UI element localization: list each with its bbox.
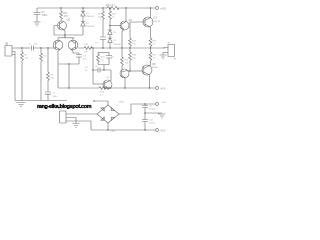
resistor R8	[60, 8, 69, 21]
wire center tap	[69, 118, 76, 124]
terminal +42V psu	[156, 102, 167, 105]
resistor R1	[21, 48, 29, 101]
wire Q1 collector	[58, 50, 60, 89]
wire input	[15, 47, 31, 49]
wire Q7 base	[130, 22, 145, 38]
wire to Q6 base	[110, 25, 121, 27]
transistor Q2 driver	[120, 69, 143, 88]
svg-text:Q6: Q6	[129, 18, 133, 22]
transistor Q6	[120, 8, 133, 48]
transistor Q5	[58, 18, 71, 31]
svg-text:+42V: +42V	[161, 102, 167, 104]
svg-text:Q5: Q5	[67, 18, 71, 22]
ground (input)	[15, 101, 26, 107]
resistor R12	[99, 87, 109, 97]
resistor R15	[129, 38, 137, 52]
bottom rail -V	[58, 87, 155, 89]
svg-text:-42V: -42V	[160, 87, 166, 91]
wire VAS column	[92, 48, 94, 84]
bridge rectifier BR1	[97, 102, 125, 133]
svg-text:Q7: Q7	[154, 16, 158, 20]
svg-text:A1941: A1941	[152, 66, 159, 69]
svg-text:R14 4.7: R14 4.7	[106, 3, 116, 7]
terminal -42V mid	[156, 87, 166, 91]
wire Q5 emitter down	[64, 30, 66, 36]
resistor R18	[97, 53, 100, 65]
capacitor C3	[95, 37, 106, 48]
node feedback	[47, 47, 48, 48]
resistor R17	[149, 52, 157, 65]
output mid line	[78, 47, 165, 49]
ground (C7)	[34, 22, 41, 26]
resistor R6	[47, 48, 55, 92]
capacitor C4	[76, 53, 87, 64]
capacitor C6	[106, 53, 112, 65]
capacitor C9	[140, 104, 156, 120]
input jack J1	[5, 43, 15, 57]
top rail +V	[37, 6, 155, 9]
bottom psu line	[91, 129, 155, 131]
wire Q7 collector	[150, 8, 152, 18]
svg-text:C5198: C5198	[154, 21, 161, 23]
svg-text:1N4148: 1N4148	[86, 16, 94, 18]
transistor Q8	[142, 62, 159, 88]
node R1	[21, 47, 22, 48]
wire bridge minus	[107, 123, 109, 130]
ground (psu)	[159, 113, 166, 118]
node dots bottom rail	[68, 87, 150, 88]
capacitor C1	[29, 44, 55, 51]
wire Q7 emitter	[150, 28, 152, 39]
svg-text:+42V: +42V	[160, 7, 166, 11]
node dots mid line	[92, 47, 151, 48]
svg-text:1N4148: 1N4148	[113, 44, 121, 46]
diode D2	[81, 22, 95, 36]
svg-text:Q8: Q8	[152, 62, 156, 66]
transistor Q4	[93, 70, 112, 89]
diode D4	[108, 38, 122, 48]
resistor R19	[129, 52, 137, 72]
svg-text:rang-elka.blogspot.com: rang-elka.blogspot.com	[37, 104, 92, 110]
wire AC1	[69, 113, 97, 115]
wire jack ground down	[14, 52, 16, 101]
wire bridge plus	[94, 101, 108, 105]
resistor R11 driver bias	[121, 48, 130, 70]
transformer connector T1	[58, 109, 69, 123]
ground (center tap)	[73, 124, 80, 128]
capacitor C7	[32, 8, 48, 22]
wire Q3 collector to C4	[71, 50, 79, 54]
node R2	[40, 47, 41, 48]
node dots top rail	[60, 7, 151, 8]
terminal +42V top	[156, 7, 167, 11]
svg-text:-42V: -42V	[160, 129, 166, 133]
svg-text:4700u: 4700u	[149, 122, 156, 124]
transistor Q3	[68, 38, 78, 50]
wire bridge right to C9	[119, 104, 155, 114]
wire Q5 base to diode string	[54, 26, 83, 39]
resistor R10	[109, 8, 117, 30]
capacitor C5	[85, 66, 111, 73]
svg-text:1N4148: 1N4148	[86, 26, 94, 28]
wire AC2	[69, 121, 91, 130]
resistor R9	[98, 8, 104, 37]
transistor Q7	[143, 16, 161, 28]
svg-text:4700u: 4700u	[149, 108, 156, 110]
speaker jack LS1	[163, 43, 177, 61]
node Q6 base	[109, 25, 110, 26]
transistor Q1	[53, 40, 63, 50]
svg-text:100u: 100u	[42, 13, 48, 17]
terminal -42V psu	[156, 129, 166, 133]
capacitor C10	[140, 118, 156, 130]
wire lower left bus	[58, 64, 79, 88]
diode D1	[81, 8, 95, 21]
svg-text:100u: 100u	[53, 96, 59, 98]
resistor R13 feedback	[84, 44, 92, 54]
wire diff pair emitters	[58, 35, 73, 40]
zobel network box	[97, 53, 115, 71]
wire psu ground	[145, 112, 162, 114]
diode D3	[108, 30, 117, 38]
ground (speaker)	[160, 55, 167, 59]
resistor R16	[149, 38, 157, 52]
svg-text:8R: 8R	[174, 59, 177, 61]
ground line bottom left	[22, 100, 67, 102]
capacitor C2	[45, 92, 58, 101]
resistor R2	[40, 48, 47, 101]
